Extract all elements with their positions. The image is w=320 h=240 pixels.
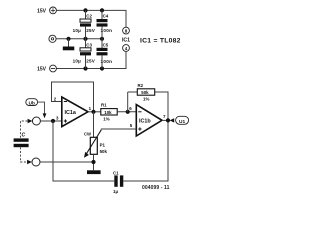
terminal 0V middle <box>49 35 56 42</box>
node middle rail C4/C5 <box>100 37 104 41</box>
wire bottom loop left <box>53 121 114 181</box>
op-amp IC1a <box>62 97 88 127</box>
svg-text:C1: C1 <box>113 170 119 175</box>
svg-text:C3: C3 <box>86 42 92 47</box>
svg-text:15V: 15V <box>37 8 47 14</box>
svg-text:R1: R1 <box>101 102 107 107</box>
wire IC1b output <box>162 119 168 121</box>
node top rail C2 <box>83 8 87 12</box>
svg-text:25V: 25V <box>86 59 96 64</box>
svg-text:IC1a: IC1a <box>65 110 77 116</box>
resistor R2 <box>128 92 168 120</box>
svg-text:10µ: 10µ <box>73 28 82 33</box>
svg-text:Ub: Ub <box>29 100 35 105</box>
wire lower input to pot node <box>40 161 94 163</box>
svg-text:50k: 50k <box>100 149 108 154</box>
Ub source oval <box>26 99 38 106</box>
terminal +15V <box>50 7 57 14</box>
svg-text:P1: P1 <box>100 143 106 148</box>
svg-text:15V: 15V <box>37 67 47 73</box>
svg-text:C5: C5 <box>103 42 109 47</box>
arrow U1 pointer <box>170 118 175 122</box>
svg-text:C4: C4 <box>103 14 109 19</box>
capacitor C4 <box>101 10 103 38</box>
wire middle rail <box>56 38 102 40</box>
arrow Ub pointer <box>43 113 47 118</box>
pin 8 circle <box>123 27 130 34</box>
capacitor C1 <box>114 175 117 186</box>
svg-text:10µ: 10µ <box>73 59 82 64</box>
svg-text:U1: U1 <box>179 119 185 125</box>
ground bar (0V) <box>63 47 75 51</box>
svg-text:1%: 1% <box>143 97 149 102</box>
svg-text:IC1b: IC1b <box>139 118 151 124</box>
op-amp IC1b <box>136 105 162 136</box>
pin 4 circle <box>123 45 130 52</box>
potentiometer P1 <box>90 137 97 154</box>
svg-text:R2: R2 <box>138 83 144 88</box>
arrow input lower <box>27 160 32 165</box>
node pin6 <box>126 110 130 114</box>
svg-text:CW: CW <box>84 131 91 136</box>
capacitor C5 <box>101 39 103 69</box>
wire ground stub <box>68 39 70 47</box>
node bottom rail C5 <box>100 66 104 70</box>
input terminal upper <box>32 117 40 125</box>
node middle rail ground <box>66 37 70 41</box>
svg-text:100n: 100n <box>101 59 113 64</box>
wire Ub to input node <box>38 102 45 114</box>
wire pot wiper to pin5 <box>101 128 136 131</box>
svg-text:100n: 100n <box>101 28 113 33</box>
resistor R1 <box>101 109 117 115</box>
svg-text:1µ: 1µ <box>113 189 118 194</box>
ground bar (pot) <box>87 170 101 174</box>
terminal -15V <box>50 65 57 72</box>
svg-text:004099 - 11: 004099 - 11 <box>142 185 170 191</box>
wire R1 to pin6 <box>117 111 136 113</box>
input terminal lower <box>32 158 40 166</box>
svg-text:50k: 50k <box>141 90 149 95</box>
svg-text:4: 4 <box>125 46 128 51</box>
svg-text:1%: 1% <box>103 116 109 121</box>
dashed wire lower input <box>21 147 28 162</box>
wire top rail <box>56 10 126 27</box>
wire pin6 up to R2 <box>127 92 129 112</box>
svg-text:10k: 10k <box>104 110 112 115</box>
node top rail C4 <box>100 8 104 12</box>
wire pot bottom lead <box>93 154 95 170</box>
node bottom rail C3 <box>83 66 87 70</box>
arrow input upper <box>28 119 33 124</box>
svg-text:8: 8 <box>125 29 128 34</box>
svg-text:IC1 = TL082: IC1 = TL082 <box>140 37 181 44</box>
node middle rail C2/C3 <box>83 37 87 41</box>
node pot/input/ground <box>91 160 95 164</box>
svg-text:25V: 25V <box>86 28 96 33</box>
wire upper input to pin3 <box>40 120 61 122</box>
IC1a feedback loop <box>52 82 94 112</box>
wire pin4 to -15V rail <box>56 51 126 68</box>
svg-text:C: C <box>22 133 26 139</box>
node pin3 / bottom loop <box>51 119 55 123</box>
svg-text:C2: C2 <box>86 14 92 19</box>
U1 output oval <box>176 116 189 124</box>
wire bottom loop right <box>123 120 168 181</box>
wire IC1a output <box>88 111 101 113</box>
node IC1b output <box>166 118 170 122</box>
capacitor C3 <box>85 39 87 69</box>
svg-text:IC1: IC1 <box>122 37 130 43</box>
dashed wire upper input <box>21 121 28 138</box>
wire pot top lead <box>93 112 95 138</box>
capacitor C2 <box>85 10 87 38</box>
node IC1a output <box>91 110 95 114</box>
